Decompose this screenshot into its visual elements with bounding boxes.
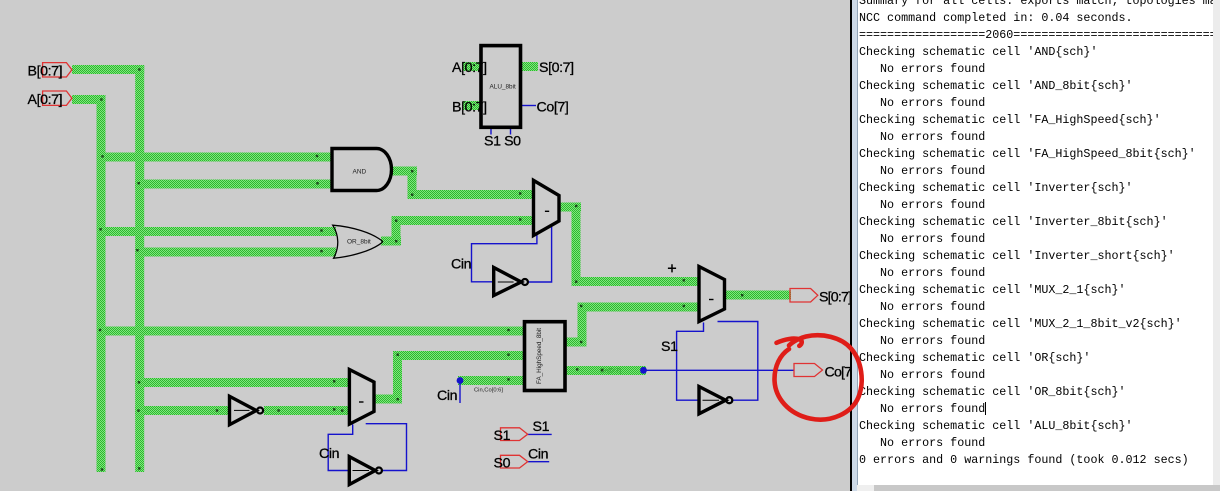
wire B[0:7] export horizontal: [72, 65, 144, 74]
svg-text:ALU_8bit: ALU_8bit: [490, 83, 517, 90]
wire B to MUX3 top input: [135, 378, 350, 387]
svg-text:S[0:7]: S[0:7]: [539, 60, 574, 76]
junction dot: [216, 409, 218, 411]
wire A to AND top input: [97, 153, 334, 162]
wire A[0:7] export horizontal: [72, 95, 106, 104]
wire Cin drop at FA: [459, 380, 461, 404]
wire FA Co output: [564, 366, 646, 375]
junction dot: [519, 192, 521, 194]
svg-text:OR_8bit: OR_8bit: [347, 239, 371, 246]
console panel: [850, 0, 1220, 491]
wire ALU S1 pin stub: [490, 127, 492, 135]
ALU pin stub B: [463, 101, 481, 110]
junction dot: [601, 369, 603, 371]
junction dot: [316, 155, 318, 157]
wire ALU S0 pin stub: [510, 127, 512, 135]
svg-text:Cin: Cin: [437, 388, 457, 404]
export S0: [501, 455, 528, 468]
junction dot: [99, 329, 101, 331]
junction dot: [138, 467, 140, 469]
svg-text:Cin: Cin: [319, 446, 339, 462]
svg-text:FA_HighSpeed_8bit: FA_HighSpeed_8bit: [536, 328, 543, 384]
svg-text:B[0:7]: B[0:7]: [28, 64, 63, 80]
wire A vertical bus: [97, 95, 106, 472]
junction dot: [320, 250, 322, 252]
wire OR output to MUX1: [392, 216, 534, 225]
wire FA sum output horizontal: [564, 338, 586, 347]
junction dot: [397, 398, 399, 400]
wire FA sum output vertical: [578, 303, 587, 347]
svg-text:Cin,Co[0:6]: Cin,Co[0:6]: [474, 388, 503, 394]
wire B to inverter U2 input: [135, 406, 230, 415]
wire OR output horizontal: [381, 237, 401, 246]
export S1: [501, 428, 528, 441]
wire inverter U3 out to MUX2: [718, 322, 758, 401]
minus sign MUX1: [545, 210, 549, 212]
wire inverter U1 out to MUX1 select: [529, 227, 552, 283]
wire MUX1 select drop: [472, 234, 537, 282]
junction dot: [341, 409, 343, 411]
wire B vertical bus: [135, 65, 144, 472]
junction dot: [100, 98, 102, 100]
junction dot: [683, 305, 685, 307]
svg-text:S1: S1: [494, 428, 511, 444]
junction dot: [575, 205, 577, 207]
junction dot: [507, 329, 509, 331]
wire B to OR bottom input: [135, 248, 336, 257]
wire inverter U2 output to MUX3: [264, 406, 350, 415]
junction dot: [397, 354, 399, 356]
junction dot: [507, 354, 509, 356]
wire MUX1 output vertical: [572, 203, 581, 287]
wire MUX1 output horizontal: [558, 203, 581, 212]
junction dot: [411, 194, 413, 196]
junction dot: [316, 182, 318, 184]
inverter U2: [230, 396, 257, 424]
junction dot: [411, 170, 413, 172]
mux MUX3: [349, 370, 374, 425]
svg-text:B[0:7]: B[0:7]: [452, 100, 487, 116]
block FA_HighSpeed_8bit: [525, 322, 566, 391]
wire FA sum to MUX2 - input: [578, 303, 701, 312]
svg-text:S1 S0: S1 S0: [484, 134, 521, 150]
wire A to FA input: [97, 327, 527, 336]
svg-text:Cin: Cin: [528, 447, 548, 463]
svg-text:S0: S0: [494, 456, 511, 472]
export A[0:7]: [43, 91, 72, 105]
wire AND output to MUX1: [408, 190, 534, 199]
junction dot: [395, 220, 397, 222]
svg-text:Co[7]: Co[7]: [537, 100, 569, 116]
ALU pin stub A: [463, 62, 481, 71]
junction dot: [333, 408, 335, 410]
svg-text:Co[0:7]: Co[0:7]: [600, 368, 621, 375]
junction dot: [137, 409, 139, 411]
wire ALU Co pin stub: [521, 105, 537, 107]
junction dot: [138, 68, 140, 70]
mux MUX1: [534, 180, 560, 235]
export B[0:7]: [43, 63, 72, 77]
junction dot: [683, 279, 685, 281]
ALU pin stub S: [520, 62, 538, 71]
plus sign MUX2: [668, 264, 676, 272]
wire Cin to FA: [458, 376, 526, 385]
wire AND output horizontal: [390, 167, 417, 176]
wire S1 export lead: [528, 433, 552, 435]
svg-text:A[0:7]: A[0:7]: [452, 60, 487, 76]
export S[0:7]: [790, 289, 818, 303]
inverter U1: [494, 268, 522, 296]
AND gate AND: [332, 149, 391, 191]
minus sign MUX3: [359, 401, 364, 403]
svg-text:AND: AND: [353, 169, 367, 176]
wire MUX2 output to S export: [723, 291, 791, 300]
wire S0 export lead: [528, 461, 550, 463]
inverter U4: [349, 457, 375, 485]
wire OR output vertical jog: [392, 216, 401, 246]
wire MUX3 output horizontal: [373, 395, 402, 404]
junction dot: [138, 182, 140, 184]
junction dot: [507, 378, 509, 380]
wire inverter U4 out to MUX3: [366, 424, 407, 471]
wire A to OR top input: [97, 227, 337, 236]
mux MUX2: [699, 267, 725, 322]
junction dot: [99, 228, 101, 230]
minus sign MUX2: [709, 299, 714, 301]
node Cin junction: [457, 377, 464, 384]
export Co[7]: [794, 364, 823, 377]
wire AND output vertical jog: [408, 167, 417, 200]
junction dot: [395, 240, 397, 242]
junction dot: [277, 409, 279, 411]
wire Co[7] net horizontal: [646, 369, 794, 371]
wire MUX1 output to MUX2 + input: [572, 277, 700, 286]
junction dot: [333, 380, 335, 382]
junction dot: [320, 229, 322, 231]
junction dot: [575, 281, 577, 283]
svg-text:S1: S1: [533, 419, 550, 435]
svg-text:A[0:7]: A[0:7]: [28, 92, 63, 108]
svg-text:S1: S1: [661, 339, 678, 355]
junction dot: [101, 468, 103, 470]
wire MUX2 select step: [677, 323, 704, 401]
junction dot: [741, 294, 743, 296]
wire MUX3 select step: [328, 425, 353, 471]
block ALU_8bit: [481, 46, 521, 128]
junction dot: [580, 341, 582, 343]
wire B to AND bottom input: [135, 180, 333, 189]
inverter U3: [699, 387, 726, 414]
svg-text:Cin: Cin: [451, 257, 471, 273]
junction dot: [101, 155, 103, 157]
junction dot: [580, 305, 582, 307]
junction dot: [136, 249, 138, 251]
wire MUX3 output to FA input: [393, 351, 526, 360]
svg-text:S[0:7]: S[0:7]: [819, 290, 851, 306]
node Co junction: [640, 367, 647, 374]
junction dot: [138, 381, 140, 383]
OR gate OR_8bit: [333, 225, 383, 258]
junction dot: [519, 218, 521, 220]
wire MUX3 output vertical: [393, 351, 402, 404]
junction dot: [576, 368, 578, 370]
